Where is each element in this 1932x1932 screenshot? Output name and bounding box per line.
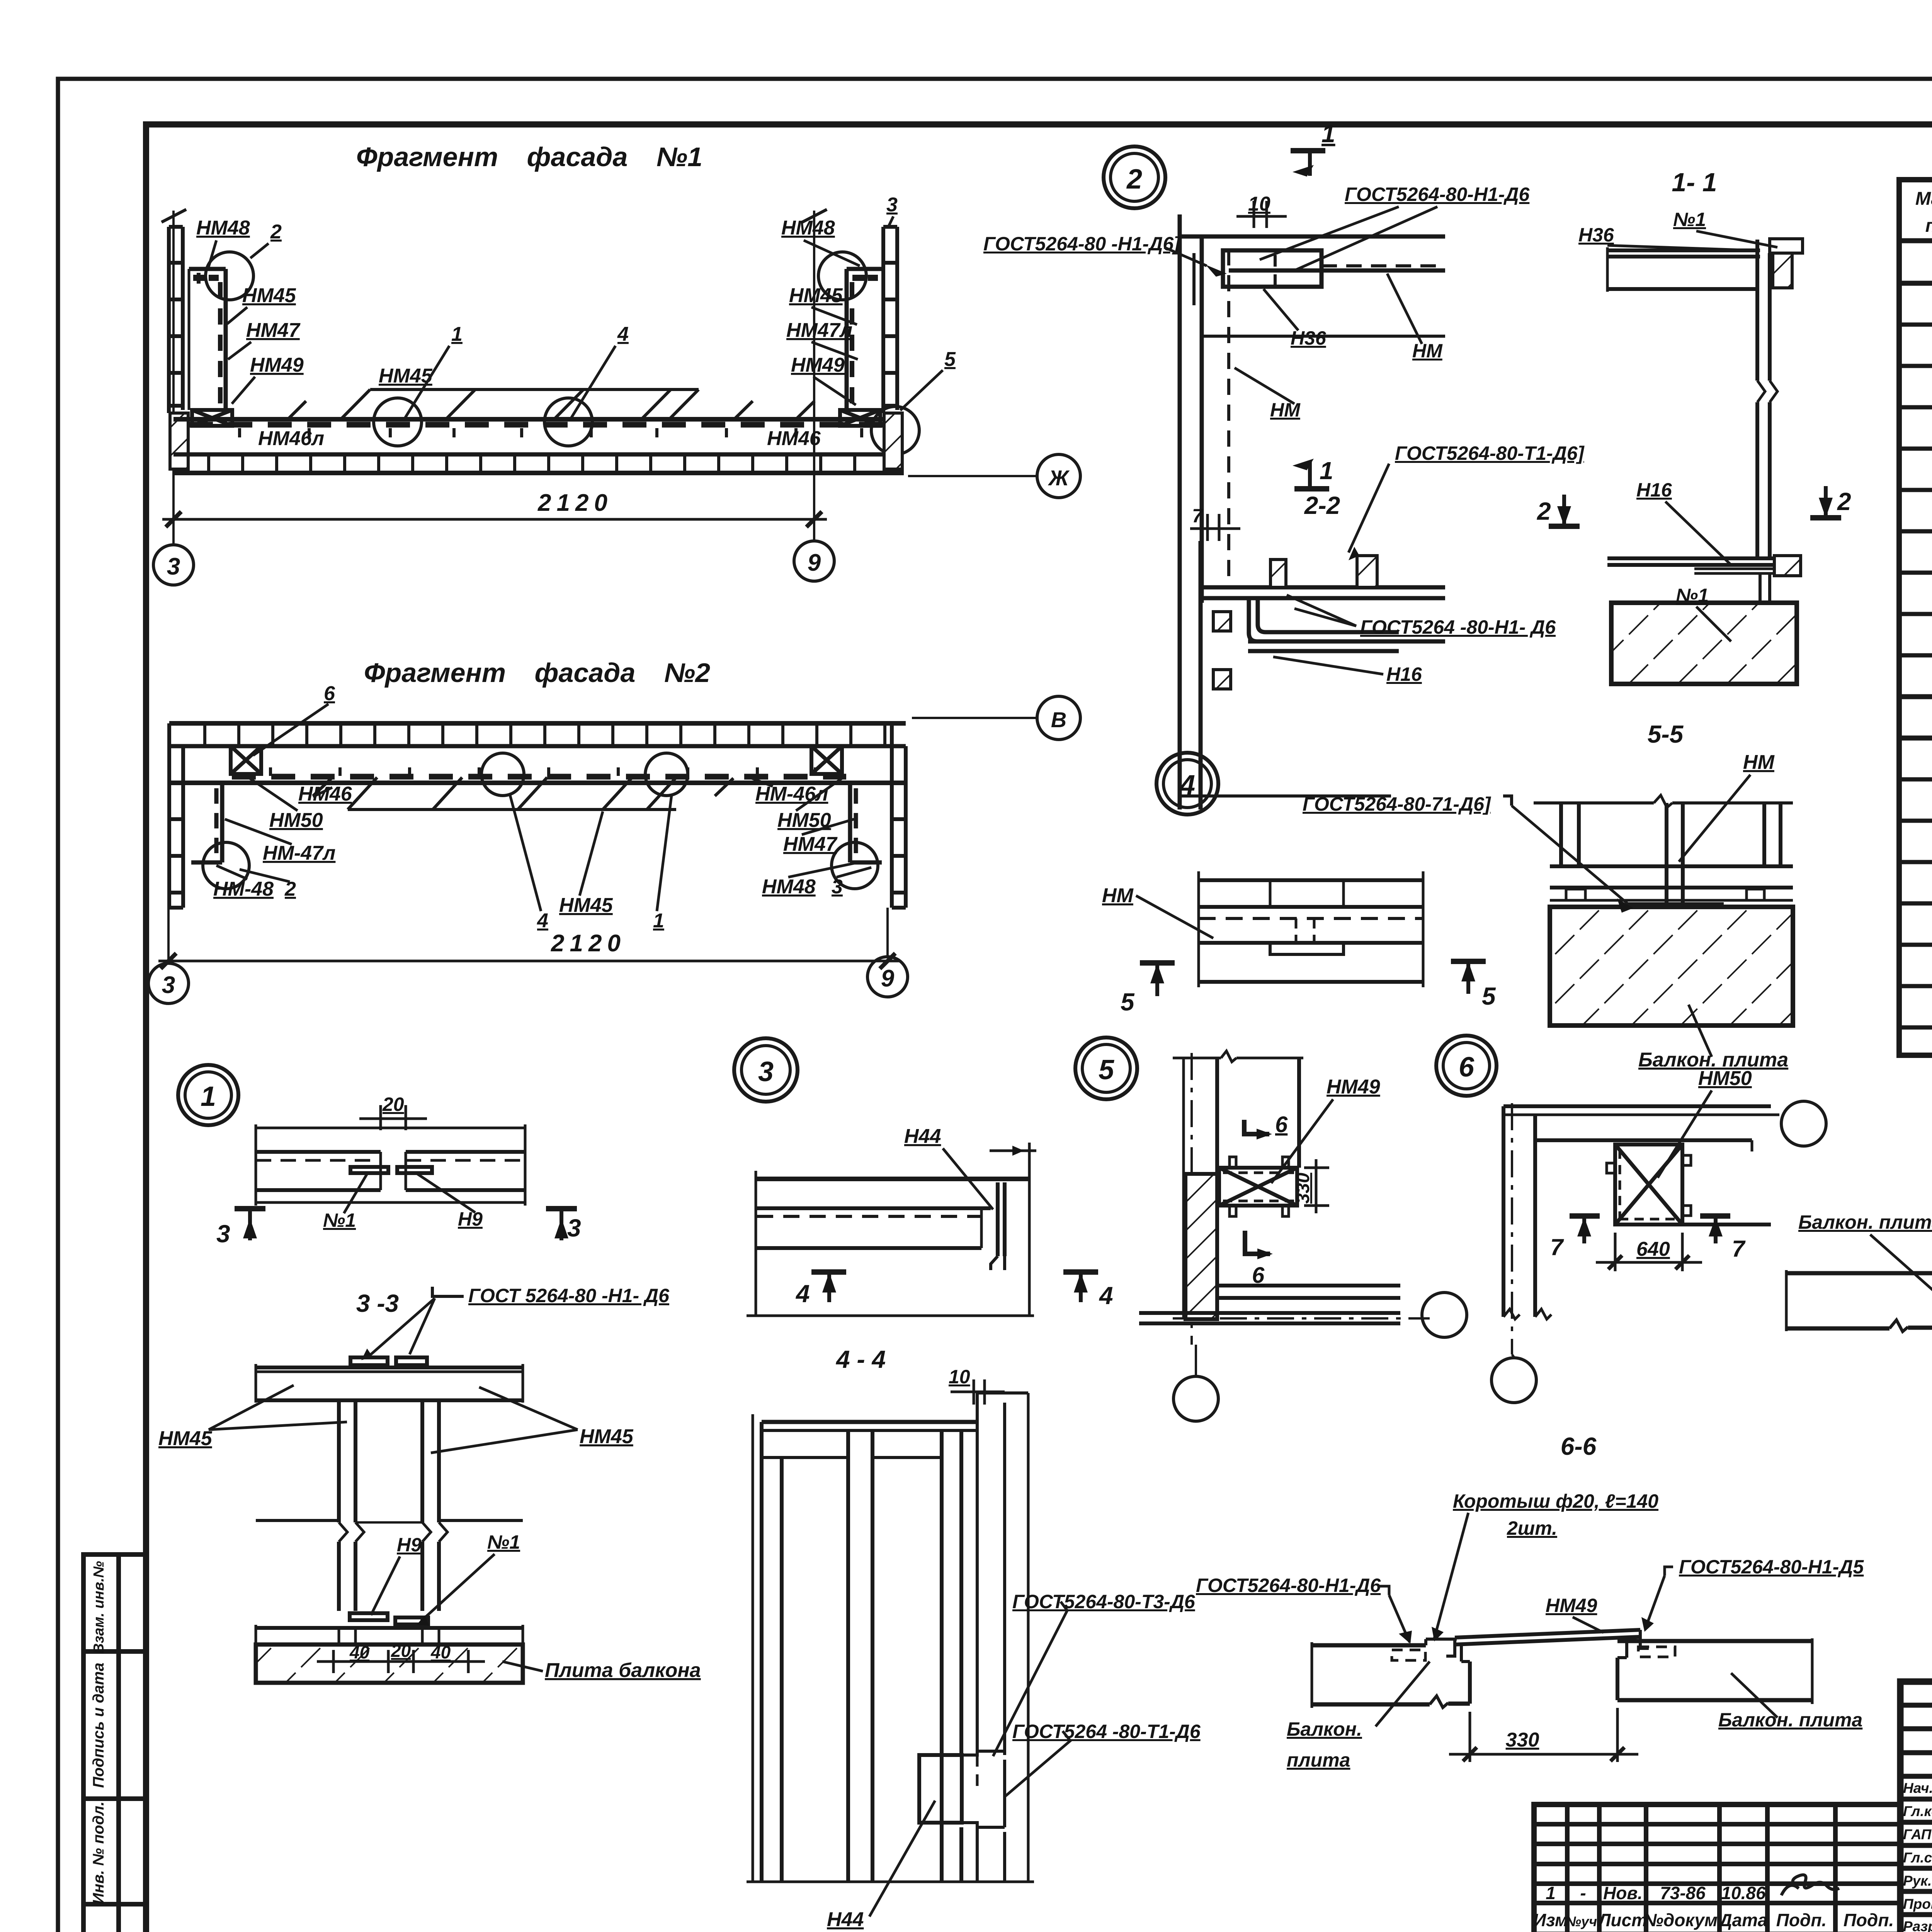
svg-text:1: 1 — [653, 910, 664, 932]
section mark 4 right of detail 3 — [1063, 1269, 1098, 1275]
section mark 5 right — [1451, 959, 1486, 964]
svg-text:НМ49: НМ49 — [1546, 1595, 1597, 1616]
5-5 band — [1550, 866, 1793, 900]
detail 5 drawing — [1173, 1051, 1303, 1345]
svg-text:6-6: 6-6 — [1561, 1432, 1597, 1460]
svg-text:Н44: Н44 — [904, 1125, 941, 1148]
frag2 dimension 2120 — [158, 908, 900, 969]
svg-text:5: 5 — [1482, 982, 1496, 1010]
svg-text:20: 20 — [382, 1094, 404, 1115]
frag2 node circles on band — [481, 753, 524, 796]
6-6 left slab — [1312, 1639, 1470, 1708]
2-2 leaders — [1273, 464, 1389, 674]
1-1 top plate — [1607, 239, 1803, 292]
frag1 axis circle 3 — [153, 545, 194, 585]
2-2 dim 7 — [1190, 514, 1240, 541]
svg-text:4: 4 — [795, 1280, 810, 1308]
frag2 labels — [213, 682, 843, 932]
6-6 bridging plate НМ49 — [1446, 1630, 1649, 1656]
svg-text:НМ45: НМ45 — [242, 284, 296, 307]
2-2 wall — [1180, 541, 1201, 810]
detail 1 reference circle — [178, 1065, 238, 1125]
frag1 right wall — [883, 227, 897, 413]
svg-text:5: 5 — [1099, 1054, 1114, 1085]
svg-text:НМ50: НМ50 — [269, 809, 323, 832]
svg-text:2: 2 — [270, 221, 282, 243]
svg-text:Н36: Н36 — [1578, 224, 1614, 246]
svg-text:2120: 2120 — [551, 930, 626, 957]
svg-text:1: 1 — [201, 1081, 216, 1112]
svg-text:НМ47: НМ47 — [246, 319, 301, 342]
svg-text:4 - 4: 4 - 4 — [835, 1345, 886, 1373]
detail 3 drawing — [747, 1143, 1036, 1316]
frag2 right wall — [892, 723, 906, 908]
svg-text:7: 7 — [1192, 505, 1204, 527]
svg-text:ГОСТ 5264-80 -Н1- Д6: ГОСТ 5264-80 -Н1- Д6 — [468, 1285, 670, 1306]
svg-text:2-2: 2-2 — [1304, 492, 1340, 519]
frag2 left wall — [169, 723, 183, 908]
detail 6 reference circle — [1436, 1036, 1497, 1096]
6-6 330 dim — [1449, 1708, 1638, 1762]
svg-text:2: 2 — [1126, 164, 1142, 195]
svg-text:НМ45: НМ45 — [789, 284, 843, 307]
7-7 left slab — [1786, 1270, 1932, 1332]
frag1 leader lines — [209, 216, 943, 418]
detail 6 640 dim — [1596, 1233, 1702, 1271]
svg-text:5: 5 — [944, 348, 956, 371]
svg-text:2: 2 — [1537, 497, 1551, 525]
1-1 slab hatched — [1611, 603, 1797, 684]
svg-text:НМ45: НМ45 — [158, 1427, 213, 1450]
detail 5 wall hatch — [1185, 1174, 1217, 1319]
frag2 right node circle — [832, 842, 878, 889]
svg-text:9: 9 — [881, 965, 895, 992]
svg-text:НМ: НМ — [1412, 340, 1443, 362]
svg-text:5: 5 — [1121, 988, 1135, 1016]
spec table header text — [1915, 189, 1932, 236]
svg-text:3: 3 — [886, 194, 898, 216]
detail 6 section marks 7 — [1570, 1213, 1600, 1219]
frag1 HM45 panel parallelogram — [288, 389, 815, 419]
1-1 bottom bracket — [1607, 556, 1801, 603]
section mark 1 below detail 2 — [1294, 486, 1329, 492]
svg-text:№1: №1 — [323, 1209, 356, 1231]
detail 5 section marks 6 — [1244, 1120, 1269, 1134]
frag1 right axis line — [813, 211, 815, 541]
svg-text:поз.: поз. — [1925, 216, 1932, 236]
svg-text:№1: №1 — [487, 1531, 520, 1553]
spec table header bottom — [1899, 238, 1932, 243]
svg-text:НМ49: НМ49 — [791, 354, 845, 376]
svg-text:Балкон. плита: Балкон. плита — [1718, 1709, 1862, 1731]
svg-text:330: 330 — [1506, 1729, 1539, 1751]
1-1 post — [1757, 240, 1777, 558]
detail 2 wall — [1180, 214, 1229, 603]
stamp name rows — [1900, 1797, 1932, 1802]
revision row signature — [1781, 1875, 1839, 1895]
revision table bottom left of stamp — [1534, 1804, 1900, 1932]
4-4 bottom connector H44 — [747, 1751, 1034, 1882]
frag1 axis circle Ж — [908, 475, 1036, 477]
svg-text:Лист: Лист — [1597, 1910, 1647, 1930]
detail 2 slab lines — [1180, 236, 1445, 336]
svg-text:3: 3 — [758, 1056, 774, 1087]
detail 5 lower rails — [1139, 1286, 1430, 1323]
3-3 dims 40 20 40 — [317, 1650, 485, 1673]
svg-text:2: 2 — [1837, 488, 1851, 515]
section mark 5 left — [1140, 960, 1175, 966]
svg-text:Инв. № подл.: Инв. № подл. — [90, 1801, 107, 1904]
svg-text:НМ45: НМ45 — [580, 1425, 634, 1448]
svg-text:6: 6 — [324, 682, 335, 705]
svg-text:40: 40 — [349, 1642, 370, 1662]
svg-text:№1: №1 — [1673, 209, 1706, 230]
svg-text:НМ-47л: НМ-47л — [263, 842, 335, 864]
5-5 top rail line — [1534, 795, 1793, 808]
frag1 left wall hatch block — [170, 413, 188, 469]
svg-text:ГОСТ5264-80-Н1-Д5: ГОСТ5264-80-Н1-Д5 — [1679, 1556, 1864, 1578]
svg-text:5-5: 5-5 — [1648, 720, 1684, 748]
detail 3 reference circle — [734, 1038, 798, 1102]
svg-text:ГОСТ5264 -80-Т1-Д6: ГОСТ5264 -80-Т1-Д6 — [1012, 1721, 1201, 1742]
svg-text:Взам. инв.№: Взам. инв.№ — [91, 1561, 107, 1654]
svg-text:10: 10 — [949, 1366, 970, 1388]
spec table grid — [1899, 180, 1932, 1055]
5-5 posts — [1561, 803, 1781, 904]
section mark 3 right — [546, 1206, 577, 1211]
svg-text:НМ: НМ — [1743, 751, 1775, 774]
svg-text:В: В — [1051, 707, 1066, 732]
2-2 weld bolts hatched — [1213, 556, 1377, 689]
svg-text:1: 1 — [1546, 1883, 1556, 1903]
frag1 right node circle — [818, 252, 866, 300]
svg-text:Изм: Изм — [1533, 1910, 1568, 1930]
svg-text:Фрагмент фасада №2: Фрагмент фасада №2 — [364, 658, 710, 688]
svg-text:ГАП: ГАП — [1903, 1827, 1932, 1842]
svg-text:Подп.: Подп. — [1776, 1910, 1827, 1930]
svg-text:ГОСТ5264 -80-Н1- Д6: ГОСТ5264 -80-Н1- Д6 — [1360, 616, 1556, 638]
frag1 labels right — [781, 194, 956, 376]
svg-text:НМ46л: НМ46л — [258, 427, 324, 450]
svg-text:4: 4 — [537, 910, 548, 932]
svg-text:Н16: Н16 — [1636, 479, 1672, 501]
frag2 left hanging post — [191, 783, 222, 862]
svg-text:НМ46: НМ46 — [298, 783, 352, 805]
frag2 leader lines — [216, 704, 871, 911]
svg-text:6: 6 — [1459, 1052, 1475, 1083]
svg-text:4: 4 — [1179, 770, 1195, 801]
svg-text:40: 40 — [430, 1642, 451, 1662]
1-1 labels top — [1578, 209, 1706, 246]
section mark 3 left — [235, 1206, 265, 1211]
svg-text:НМ45: НМ45 — [559, 894, 613, 917]
left margin rotated labels — [90, 1561, 107, 1904]
frag1 node circles on band — [374, 398, 422, 446]
detail 2 dim 10 — [1236, 201, 1287, 228]
svg-text:10.86: 10.86 — [1721, 1883, 1766, 1903]
left margin label column — [83, 1554, 146, 1932]
svg-text:1: 1 — [1321, 120, 1335, 148]
frag2 HM45 panel below band — [313, 777, 733, 810]
svg-text:НМ-48: НМ-48 — [213, 878, 274, 900]
6-6 labels — [1012, 1490, 1864, 1771]
frag1 balcony slab band — [173, 419, 904, 473]
svg-text:1: 1 — [1320, 457, 1333, 485]
svg-text:ГОСТ5264-80 -Н1-Д6]: ГОСТ5264-80 -Н1-Д6] — [983, 233, 1181, 255]
svg-text:Н16: Н16 — [1386, 663, 1422, 685]
svg-text:Гл.констр.: Гл.констр. — [1903, 1803, 1932, 1819]
title block stamp outline — [1900, 1682, 1932, 1932]
detail 4 reference circle — [1156, 753, 1218, 815]
3-3 bottom plates — [256, 1613, 523, 1685]
detail 2 leaders — [1164, 207, 1437, 404]
svg-text:Подпись и дата: Подпись и дата — [90, 1663, 107, 1788]
svg-text:ГОСТ5264-80-Н1-Д6: ГОСТ5264-80-Н1-Д6 — [1196, 1575, 1381, 1596]
3-3 posts — [339, 1400, 447, 1611]
frag2 axis circle 9 — [867, 957, 908, 997]
svg-text:4: 4 — [617, 323, 629, 345]
detail 5 crossed box НМ49 — [1219, 1157, 1297, 1216]
svg-text:4: 4 — [1099, 1282, 1113, 1310]
svg-text:9: 9 — [808, 549, 821, 576]
svg-text:640: 640 — [1636, 1238, 1670, 1260]
svg-text:Ж: Ж — [1048, 466, 1070, 490]
detail 5 330 dim — [1304, 1159, 1329, 1213]
frag2 brick course on top — [169, 723, 906, 783]
frag1 left railing post HM48 — [189, 269, 226, 410]
detail 1 plan drawing — [256, 1124, 525, 1206]
svg-text:НМ: НМ — [1270, 399, 1301, 421]
frag2 axis circle 3 — [148, 963, 189, 1003]
svg-text:Фрагмент фасада №1: Фрагмент фасада №1 — [356, 142, 702, 172]
detail 2 bracket plate — [1194, 250, 1321, 305]
frag1 labels left — [196, 217, 821, 450]
svg-text:НМ48: НМ48 — [762, 876, 816, 898]
svg-text:Марка: Марка — [1915, 189, 1932, 209]
frag1 right wall hatch block — [884, 413, 902, 469]
svg-text:Н9: Н9 — [458, 1208, 483, 1230]
svg-text:НМ49: НМ49 — [250, 354, 304, 376]
svg-text:№1: №1 — [1676, 585, 1709, 606]
svg-text:Нов.: Нов. — [1603, 1883, 1643, 1903]
6-6 leader lines — [993, 1513, 1777, 1797]
frag1 anchor ticks on band — [240, 428, 862, 437]
svg-text:ГОСТ5264-80-Н1-Д6: ГОСТ5264-80-Н1-Д6 — [1345, 184, 1530, 205]
frag1 node circle detail2 ref — [206, 252, 253, 300]
frag2 heavy dashed line — [232, 774, 846, 780]
svg-text:6: 6 — [1275, 1112, 1288, 1137]
frag2 left node circle — [203, 842, 249, 889]
4-4 drawing — [753, 1393, 1028, 1882]
svg-text:7: 7 — [1550, 1234, 1564, 1260]
svg-text:НМ: НМ — [1102, 884, 1134, 907]
detail 2 labels — [983, 184, 1530, 421]
svg-text:Подп.: Подп. — [1844, 1910, 1894, 1930]
stamp signature-role texts — [1903, 1779, 1932, 1932]
detail 4 drawing — [1199, 871, 1423, 987]
svg-text:№уч.: №уч. — [1565, 1913, 1601, 1929]
7-7 labels — [1798, 1121, 1932, 1414]
spec table row lines — [1899, 281, 1932, 286]
svg-text:НМ49: НМ49 — [1327, 1076, 1380, 1098]
frag2 anchor ticks — [270, 767, 815, 776]
svg-text:Рук.гр.: Рук.гр. — [1903, 1873, 1932, 1889]
frag1 left crossed box — [192, 410, 232, 426]
svg-text:ГОСТ5264-80-Т3-Д6: ГОСТ5264-80-Т3-Д6 — [1012, 1591, 1196, 1612]
section mark 2 down right — [1824, 486, 1828, 515]
frag2 axis circle В — [912, 717, 1037, 719]
svg-text:Балкон.: Балкон. — [1287, 1718, 1362, 1740]
svg-text:Н36: Н36 — [1291, 327, 1327, 349]
svg-text:6: 6 — [1252, 1263, 1265, 1288]
svg-text:Балкон. плита: Балкон. плита — [1798, 1211, 1932, 1233]
frag1 brick course below band — [209, 454, 855, 473]
svg-text:НМ47: НМ47 — [783, 833, 838, 855]
svg-text:20: 20 — [391, 1641, 411, 1661]
svg-text:Гл.спец.: Гл.спец. — [1903, 1850, 1932, 1866]
svg-text:10: 10 — [1248, 193, 1270, 215]
3-3 mid rails — [256, 1520, 523, 1522]
detail 6 drawing — [1503, 1103, 1779, 1354]
svg-text:НМ48: НМ48 — [781, 217, 835, 239]
svg-text:Плита балкона: Плита балкона — [545, 1659, 701, 1682]
svg-text:73-86: 73-86 — [1660, 1883, 1706, 1903]
svg-text:3 -3: 3 -3 — [356, 1289, 399, 1317]
svg-text:1: 1 — [451, 323, 463, 345]
svg-text:Н44: Н44 — [827, 1908, 864, 1931]
svg-text:НМ50: НМ50 — [1698, 1067, 1752, 1090]
stamp upper small rows — [1900, 1703, 1932, 1708]
frag1 right crossed box — [840, 410, 880, 426]
frag1 right railing post — [847, 269, 883, 410]
svg-text:1- 1: 1- 1 — [1672, 168, 1717, 197]
detail 6 crossed box НМ50 — [1607, 1145, 1691, 1225]
svg-text:Провер.: Провер. — [1903, 1896, 1932, 1912]
svg-text:3: 3 — [832, 876, 843, 898]
frag1 dimension 2120 — [162, 512, 827, 527]
detail 5 reference circle — [1075, 1037, 1137, 1099]
2-2 labels — [1360, 442, 1585, 685]
section mark 1 above detail 2 — [1291, 148, 1325, 153]
svg-text:2120: 2120 — [537, 490, 613, 516]
frag2 right crossed box — [811, 746, 842, 774]
svg-text:3: 3 — [167, 553, 180, 580]
svg-text:-: - — [1580, 1883, 1586, 1903]
svg-text:НМ47л: НМ47л — [786, 319, 852, 342]
frag2 right hanging post — [850, 783, 882, 862]
svg-text:Н9: Н9 — [397, 1534, 422, 1556]
5-5 weld pad — [1628, 904, 1722, 914]
3-3 drawing top plates — [256, 1357, 523, 1403]
svg-text:3: 3 — [162, 972, 175, 998]
svg-text:330: 330 — [1293, 1173, 1313, 1204]
detail 5 node circles — [1422, 1293, 1467, 1337]
6-6 right slab — [1617, 1638, 1812, 1704]
svg-text:Разраб.: Разраб. — [1903, 1918, 1932, 1932]
svg-text:НМ48: НМ48 — [196, 217, 250, 239]
svg-text:ГОСТ5264-80-Т1-Д6]: ГОСТ5264-80-Т1-Д6] — [1395, 442, 1585, 464]
svg-text:№докум.: №докум. — [1643, 1910, 1723, 1930]
section mark 4 left of detail 3 — [811, 1269, 846, 1275]
svg-text:НМ46: НМ46 — [767, 427, 821, 450]
svg-text:Нач.АПМ1: Нач.АПМ1 — [1903, 1780, 1932, 1796]
7-7 leader lines — [1870, 1131, 1932, 1363]
svg-text:ГОСТ5264-80-71-Д6]: ГОСТ5264-80-71-Д6] — [1303, 793, 1492, 815]
svg-text:3: 3 — [567, 1214, 581, 1242]
3-3 bottom slab hatch — [256, 1645, 523, 1683]
svg-text:плита: плита — [1287, 1749, 1350, 1771]
frag2 left crossed box — [231, 746, 261, 774]
svg-text:Дата: Дата — [1718, 1910, 1767, 1930]
2-2 plates — [1180, 587, 1445, 796]
detail 6 node circles — [1781, 1101, 1826, 1146]
5-5 slab hatched — [1550, 907, 1793, 1026]
svg-text:2шт.: 2шт. — [1507, 1517, 1557, 1539]
frag1 axis circle 9 — [794, 541, 834, 581]
svg-text:Коротыш ф20, ℓ=140: Коротыш ф20, ℓ=140 — [1453, 1490, 1658, 1512]
frag1 left axis line — [172, 211, 175, 545]
detail 2 reference circle — [1104, 146, 1165, 208]
frag1 left wall — [169, 227, 183, 413]
svg-text:3: 3 — [216, 1220, 230, 1248]
svg-text:7: 7 — [1732, 1236, 1746, 1262]
detail 1 dim 20 — [359, 1105, 427, 1130]
revision table texts — [1533, 1883, 1894, 1930]
